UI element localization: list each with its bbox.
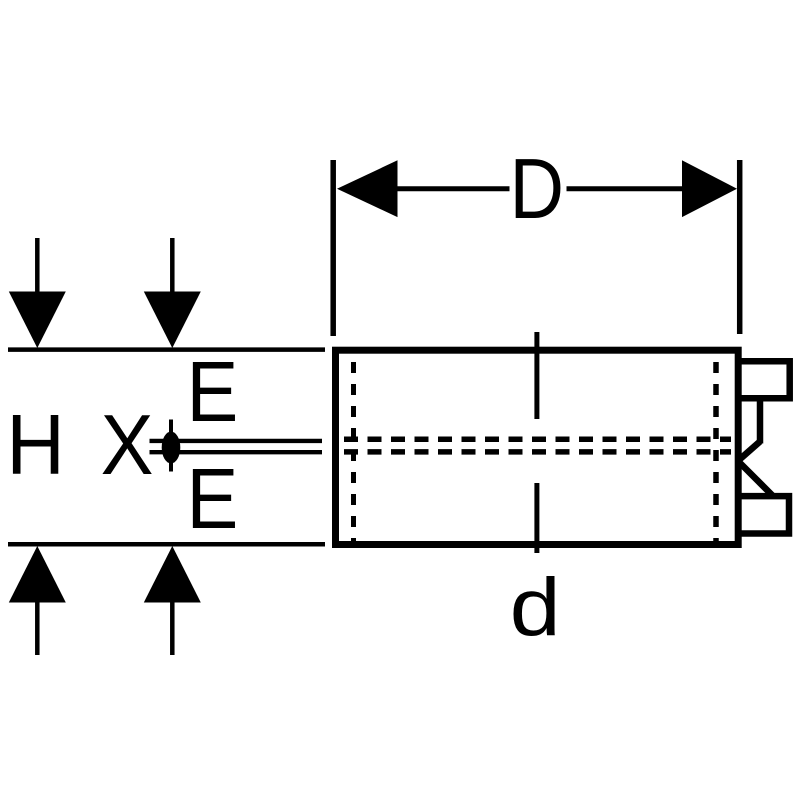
svg-text:D: D [510,142,565,237]
svg-text:E: E [187,452,239,547]
svg-text:d: d [510,562,561,653]
svg-text:H: H [6,397,65,492]
svg-text:X: X [101,398,154,492]
svg-text:E: E [187,345,239,440]
